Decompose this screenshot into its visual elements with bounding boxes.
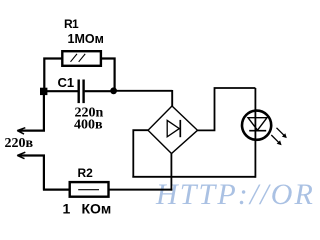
capacitor C1 [79, 80, 84, 104]
wire R1 right lead down [101, 57, 115, 90]
svg-text:400в: 400в [74, 117, 103, 132]
svg-text:220в: 220в [5, 136, 34, 151]
resistor R1 [62, 51, 101, 66]
diode bridge diamond [148, 106, 198, 154]
LED D1 [242, 111, 271, 140]
node junction dot right [110, 87, 117, 94]
wire top horizontal to capacitor left plate [42, 90, 78, 92]
wire bridge bottom corner vertical [170, 154, 172, 191]
resistor R2 [70, 182, 109, 197]
wire junction to bridge top [114, 90, 173, 106]
wire bridge left corner to bottom loop [132, 129, 255, 177]
svg-text:HTTP://OR: HTTP://OR [155, 178, 315, 211]
wire lower left vertical [43, 91, 45, 130]
node junction square left [40, 88, 47, 95]
wire arrow upper 220v input [17, 128, 45, 134]
diode symbol inside bridge [167, 120, 180, 137]
svg-text:R1: R1 [64, 17, 79, 31]
svg-text:1: 1 [63, 201, 71, 217]
wire capacitor right plate to junction [85, 90, 114, 92]
svg-text:C1: C1 [58, 75, 75, 90]
wire R2 right lead to bridge bottom [109, 189, 173, 191]
wire bridge right corner to LED top loop [198, 88, 256, 178]
LED emission arrow 1 [277, 128, 287, 138]
wire R1 left lead and left vertical [44, 57, 62, 91]
wire arrow lower 220v input and lead to R2 [17, 152, 70, 189]
svg-text:КОм: КОм [82, 201, 112, 217]
svg-text:1МОм: 1МОм [68, 32, 104, 46]
LED emission arrow 2 [271, 135, 281, 145]
svg-text:R2: R2 [78, 166, 94, 180]
